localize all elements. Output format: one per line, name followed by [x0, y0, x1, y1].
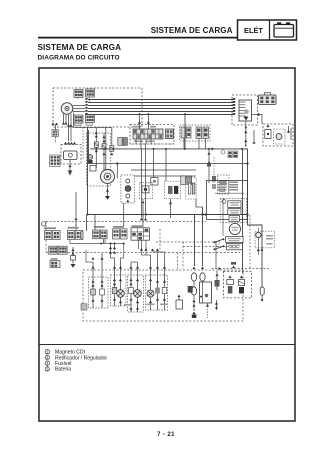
- charge bus wires: [88, 100, 233, 115]
- meter bulb: [150, 255, 152, 310]
- battery dashed line: [212, 268, 270, 270]
- main connector strip dashed box: [130, 125, 174, 145]
- indicator bulb: [256, 232, 261, 237]
- flasher terminal 1: [126, 179, 130, 183]
- CN7 dashed box: [180, 125, 211, 141]
- svg-text:ELÉT: ELÉT: [244, 26, 263, 35]
- group B corner block: [81, 304, 87, 310]
- tail light dashed box: [128, 275, 144, 312]
- magneto output pins: [85, 98, 87, 115]
- circled label 2: [222, 200, 226, 204]
- coil input pins: [64, 142, 67, 145]
- battery feed pins: [192, 267, 195, 270]
- CDI coil ground lead: [107, 184, 109, 197]
- svg-text:SISTEMA DE CARGA: SISTEMA DE CARGA: [38, 43, 122, 52]
- lead pins: [62, 122, 65, 125]
- CDI left chain wire 1: [95, 128, 97, 169]
- junction dots: [95, 148, 97, 150]
- magneto CDI rotor: [61, 103, 73, 115]
- fuse 2: [191, 287, 196, 295]
- meter chain 3: [164, 262, 166, 310]
- bus end pins: [233, 98, 235, 115]
- lever link dashes: [218, 241, 220, 248]
- battery bottom pins: [192, 300, 195, 303]
- fuse left: [191, 273, 196, 281]
- svg-text:DIAGRAMA DO CIRCUITO: DIAGRAMA DO CIRCUITO: [38, 54, 120, 61]
- rectifier ground wire: [245, 121, 247, 146]
- switch comp 1 dashed: [140, 182, 153, 198]
- ground: [68, 171, 73, 175]
- small unit in lamp box: [265, 130, 271, 139]
- connector block top 2: [86, 89, 95, 97]
- CDI sub blocks: [118, 138, 122, 146]
- switch box 3: [229, 216, 240, 222]
- ignition coil dashed box: [61, 145, 81, 165]
- flasher out wire: [123, 203, 125, 227]
- flasher terminal 2: [126, 194, 130, 198]
- neutral switch dashed box: [89, 277, 109, 308]
- connector block bottom 2: [86, 115, 95, 123]
- switch feed wire: [215, 241, 217, 262]
- right fuse pill: [260, 287, 264, 295]
- fuse holder part: [188, 286, 193, 293]
- CDI unit dashed box: [87, 133, 111, 186]
- chain bottom labels: [124, 304, 132, 306]
- harness wire D: [134, 175, 196, 177]
- comp1 out pins: [141, 201, 144, 204]
- flasher relay dashed box: [121, 175, 135, 203]
- right feed vertical: [248, 152, 263, 287]
- CDI coil: [101, 170, 115, 184]
- hl chain 1: [114, 262, 116, 306]
- flasher body: [125, 186, 131, 192]
- fusivel stack: [228, 276, 231, 279]
- header tab box ELET: [238, 20, 297, 40]
- CN7 stubs: [184, 138, 206, 149]
- harness wire C: [131, 169, 196, 171]
- strip bottom stubs: [136, 139, 151, 149]
- coil ground wire: [69, 160, 71, 176]
- pilot lamp dashed box top right: [263, 124, 293, 146]
- connector CN5: [166, 129, 174, 139]
- neutral chain 1: [92, 262, 94, 308]
- left lower connector 2: [58, 246, 67, 254]
- svg-text:Bateria: Bateria: [55, 367, 71, 373]
- light switch label: [68, 227, 79, 229]
- junction pins row: [109, 247, 112, 250]
- lamp side pins: [289, 126, 292, 140]
- tl chain 1: [130, 262, 132, 312]
- switch box 2: [228, 209, 241, 215]
- ignition switch meter: [229, 223, 240, 234]
- flasher relay feed: [116, 164, 118, 179]
- resistor R1: [94, 142, 98, 147]
- tail lamp bulb: [137, 262, 139, 312]
- neutral chain 2: [101, 253, 103, 308]
- dimmer switch blocks: [113, 229, 120, 239]
- main connector strip: [133, 129, 163, 142]
- battery bottom dashes: [207, 303, 209, 318]
- svg-text:SISTEMA DE CARGA: SISTEMA DE CARGA: [151, 26, 233, 35]
- turn pilot dashed chain: [213, 157, 215, 183]
- svg-text:7 - 21: 7 - 21: [157, 432, 175, 438]
- left small chain pins: [51, 123, 54, 126]
- long vertical to fuse: [242, 149, 244, 273]
- rectifier ground triangle: [244, 117, 249, 121]
- capacitor C1: [88, 155, 93, 160]
- switch comp 2 dashed: [164, 181, 180, 199]
- group feed pins: [74, 218, 77, 221]
- left lower connector 3: [50, 261, 60, 268]
- group boundary dashes: [249, 215, 251, 268]
- dimmer parts: [181, 176, 186, 185]
- distribution wires: [70, 239, 216, 269]
- wires rotor to pins: [73, 106, 85, 112]
- meter lamps dashed box: [146, 275, 168, 310]
- strip feed wires: [139, 114, 148, 129]
- rectifier output wire: [252, 115, 263, 125]
- ignition coil: [64, 151, 78, 160]
- kill switch lever 1: [215, 239, 224, 242]
- fuse right: [200, 273, 205, 281]
- resistor R2: [103, 133, 105, 170]
- magneto CDI dashed group box: [53, 88, 142, 127]
- header rule: [38, 37, 237, 39]
- switch unit labels: [218, 182, 239, 191]
- connector CN7 pair: [181, 127, 186, 138]
- CDI box left dashes: [82, 127, 84, 160]
- strip text label: [133, 126, 141, 128]
- sidestand relay part: [216, 271, 218, 290]
- indicator lamp dashed: [255, 231, 275, 248]
- legend: [45, 350, 107, 373]
- battery feed verticals lower: [194, 281, 203, 311]
- main switch label: [132, 225, 144, 227]
- rectifier/regulator unit: [239, 100, 252, 121]
- horn component: [151, 178, 158, 186]
- connector block top 1: [74, 90, 83, 98]
- turn switch label: [44, 227, 56, 229]
- chain1 pins2: [95, 150, 98, 153]
- lower switch box 1: [226, 237, 244, 243]
- CDI left chain wire 2: [105, 128, 107, 170]
- resistor R3: [110, 146, 114, 151]
- dimmer switch label: [113, 226, 124, 228]
- legend divider: [39, 344, 295, 346]
- rectifier/regulator dashed box: [232, 95, 258, 125]
- chain1 pins: [95, 132, 98, 135]
- switch comp 3 dashed: [186, 178, 197, 200]
- battery feed verticals: [195, 207, 203, 266]
- lamp bulb: [274, 129, 286, 144]
- g3 feeds: [95, 215, 104, 244]
- left connector block: [50, 155, 61, 167]
- lamp group dashed box: [83, 270, 243, 321]
- headlight bulb: [120, 262, 122, 306]
- headlight dashed box: [111, 275, 127, 306]
- battery icon: [274, 22, 294, 37]
- connector CN8 pair: [196, 127, 202, 139]
- harness wire B: [89, 130, 248, 164]
- horn switch blocks: [93, 230, 100, 239]
- meter chain 2: [157, 255, 159, 310]
- aux part: [176, 300, 183, 309]
- switch box 1: [228, 201, 241, 208]
- switch stack left wire: [222, 198, 224, 236]
- lower switch box 2: [227, 243, 243, 249]
- fuse box C bottom stub: [241, 289, 244, 292]
- left lower connector 1: [49, 246, 58, 254]
- kill switch lever 2: [215, 246, 224, 249]
- ground 2: [71, 264, 76, 268]
- switch stack dashed box: [220, 198, 246, 222]
- horn switch label: [94, 226, 105, 228]
- main switch grid: [131, 228, 150, 240]
- comp3 out wire: [196, 199, 203, 207]
- comp2 out wire: [170, 199, 172, 218]
- bateria stack: [240, 276, 243, 279]
- turn relay junction: [208, 148, 210, 150]
- diode D1: [90, 166, 96, 172]
- battery unit box: [200, 282, 212, 303]
- bus tap wire: [184, 114, 186, 149]
- horn feed: [154, 149, 167, 181]
- headlight connector top right: [259, 93, 277, 105]
- lamp feed pin: [266, 125, 269, 128]
- left small box: [52, 130, 58, 137]
- light switch blocks: [67, 231, 74, 240]
- wire left of lamp box: [253, 130, 255, 141]
- fuse battery dashed box: [224, 271, 252, 298]
- indicator connector pair: [228, 151, 232, 158]
- CDI left chain wire 3: [111, 128, 113, 153]
- bottom pin x216: [216, 300, 218, 310]
- circled label 5: [42, 222, 46, 226]
- sidestand chain: [72, 247, 74, 264]
- connector block bottom 1: [74, 115, 83, 123]
- wire magneto to CDI row: [74, 127, 113, 129]
- turn pilot dashed box: [218, 175, 230, 194]
- handlebar group dashed top: [46, 222, 240, 271]
- main switch unit box: [207, 181, 248, 220]
- circled label 6: [221, 150, 225, 154]
- main harness wire A: [90, 149, 248, 152]
- turn switch blocks: [45, 231, 52, 240]
- main frame: [39, 68, 295, 421]
- magneto bottom leads: [64, 113, 74, 142]
